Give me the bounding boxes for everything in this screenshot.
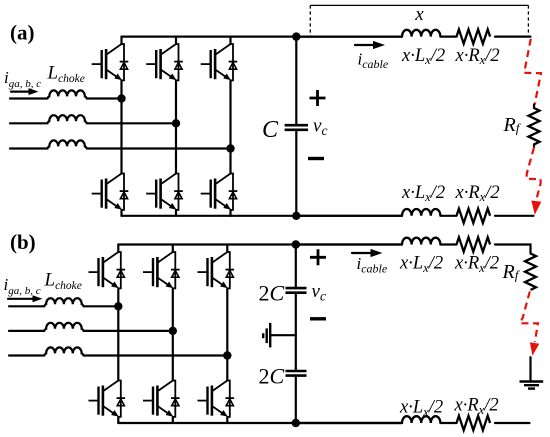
fault dashed path upper (a): [524, 39, 541, 105]
wire: [84, 305, 119, 307]
capacitor 2C top (b): [286, 287, 307, 290]
node phase b (a): [172, 119, 180, 127]
leg 3 wire (a): [229, 37, 231, 216]
choke inductor Lb (a): [48, 115, 87, 123]
svg-text:x·Lx/2: x·Lx/2: [399, 398, 443, 419]
svg-text:x·Lx/2: x·Lx/2: [401, 183, 445, 204]
leg 1 wire (b): [117, 245, 119, 424]
IGBT T1 (a): [92, 44, 129, 80]
svg-text:x: x: [414, 4, 424, 25]
wire: [84, 330, 173, 332]
IGBT T1 (b): [89, 252, 126, 288]
minus sign (b): [310, 317, 326, 320]
IGBT T2 (b): [198, 381, 235, 417]
i_cable arrow (b): [352, 252, 371, 254]
IGBT T4 (b): [89, 381, 126, 417]
IGBT T5 (b): [198, 252, 235, 288]
wire: [84, 354, 228, 356]
node bottom bus / cap (a): [292, 212, 300, 220]
choke inductor Lb (b): [44, 323, 83, 331]
bottom DC bus (a): [122, 215, 403, 217]
leg 1 wire (a): [120, 37, 122, 216]
phase wire b (b): [9, 330, 44, 332]
node phase b (b): [169, 327, 177, 335]
bracket dashed right: [527, 5, 529, 36]
fault resistor R_f (b): [525, 254, 536, 290]
cable resistor top (a): [457, 29, 491, 43]
node top bus / cap (a): [292, 32, 300, 40]
phase wire a (b): [9, 305, 44, 307]
bottom cable wire (a): [300, 215, 534, 217]
cable resistor bottom (b): [457, 416, 491, 430]
svg-text:x·Rx/2: x·Rx/2: [455, 183, 500, 204]
node phase c (b): [223, 351, 231, 359]
fault dashed path (b): [520, 292, 538, 343]
phase wire b (a): [10, 122, 48, 124]
midpoint ground bars (b): [269, 323, 271, 348]
choke inductor La (a): [48, 90, 87, 98]
node phase a (a): [117, 94, 125, 102]
svg-text:x·Rx/2: x·Rx/2: [454, 396, 499, 417]
node bottom bus / cap (b): [292, 419, 300, 427]
svg-text:x·Rx/2: x·Rx/2: [454, 254, 499, 275]
leg 2 wire (a): [175, 37, 177, 216]
cable resistor bottom (a): [457, 209, 491, 223]
phase wire c (b): [9, 354, 44, 356]
cable inductor top (b): [402, 238, 440, 245]
fault arrow (a): [531, 201, 541, 215]
bracket dashed left: [309, 5, 311, 36]
node phase c (a): [226, 144, 234, 152]
svg-text:x·Lx/2: x·Lx/2: [401, 46, 445, 67]
node top bus / cap (b): [292, 240, 300, 248]
svg-text:C: C: [262, 117, 279, 143]
top cable wire (b): [300, 245, 531, 254]
DC-link wire (b): [295, 245, 297, 424]
leg 3 wire (b): [226, 245, 228, 424]
node phase a (b): [114, 302, 122, 310]
input current arrow (a): [11, 90, 30, 92]
svg-text:x·Lx/2: x·Lx/2: [399, 254, 443, 275]
wire: [87, 147, 231, 149]
wire: [87, 122, 176, 124]
svg-text:(a): (a): [10, 21, 35, 45]
distance bracket top line: [310, 4, 528, 6]
cable resistor top (b): [457, 237, 491, 251]
fault resistor R_f (a): [529, 108, 540, 144]
choke inductor Lc (a): [48, 140, 87, 148]
phase wire a (a): [10, 97, 48, 99]
fault resistor stub bottom (a): [533, 144, 535, 146]
plus sign (b): [310, 249, 326, 265]
IGBT T5 (a): [201, 44, 238, 80]
fault dashed path lower (a): [527, 148, 541, 200]
i_cable arrow (a): [355, 44, 374, 46]
earth ground (b): [529, 357, 531, 381]
cable inductor top (a): [402, 30, 440, 37]
cable inductor bottom (b): [402, 416, 440, 423]
choke inductor Lc (b): [44, 347, 83, 355]
minus sign (a): [308, 157, 324, 160]
IGBT T3 (a): [146, 44, 183, 80]
top DC bus (b): [118, 243, 402, 245]
wire: [87, 97, 122, 99]
phase wire c (a): [10, 147, 48, 149]
cable inductor bottom (a): [402, 209, 440, 216]
svg-text:2C: 2C: [259, 364, 285, 389]
bottom DC bus (b): [118, 422, 402, 424]
fault arrow (b): [530, 342, 539, 356]
IGBT T3 (b): [143, 252, 180, 288]
IGBT T2 (a): [201, 174, 238, 210]
midpoint ground stem (b): [270, 334, 296, 336]
IGBT T6 (b): [143, 381, 180, 417]
leg 2 wire (b): [172, 245, 174, 424]
fault resistor stub top (a): [533, 105, 535, 109]
svg-text:2C: 2C: [259, 281, 285, 306]
svg-text:x·Rx/2: x·Rx/2: [455, 46, 500, 67]
bottom cable wire (b): [300, 422, 530, 424]
input current arrow (b): [8, 298, 33, 300]
IGBT T6 (a): [146, 174, 183, 210]
svg-text:(b): (b): [10, 230, 36, 254]
choke inductor La (b): [44, 298, 83, 306]
plus sign (a): [310, 90, 326, 106]
top cable wire (a): [300, 35, 531, 37]
DC-link capacitor C (a): [295, 37, 297, 216]
top DC bus (a): [122, 35, 403, 37]
IGBT T4 (a): [92, 174, 129, 210]
capacitor 2C bottom (b): [286, 370, 307, 373]
